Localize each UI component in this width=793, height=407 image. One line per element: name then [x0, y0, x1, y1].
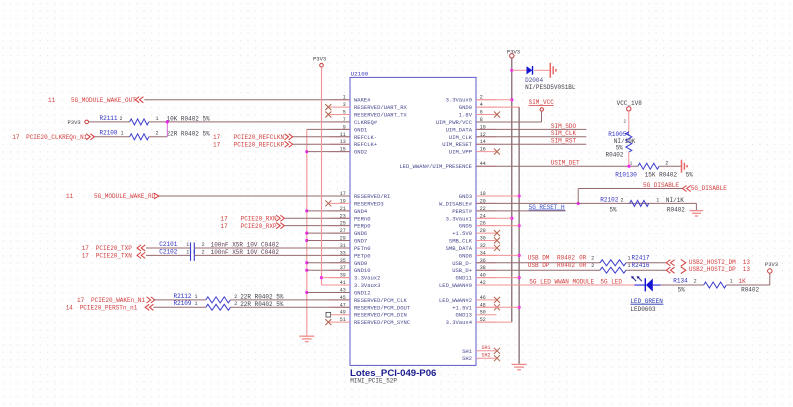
part title Lotes_PCI-049-P06	[350, 368, 436, 379]
wire VCC_1V8 to R10054	[624, 111, 629, 132]
pin 40 GND11	[455, 273, 496, 282]
pin 39 3.3Vaux2	[330, 273, 381, 282]
net SIM_RST label	[551, 138, 577, 145]
pin 29 GND7	[330, 236, 368, 245]
pin 7 CLKREQ#	[330, 117, 378, 126]
wire 5G_MODULE_WAKE_OUT to pin 1	[144, 99, 350, 101]
offpage connector PCIE20_TXN	[137, 252, 145, 258]
svg-text:PETn0: PETn0	[354, 245, 371, 252]
pin 19 RESERVED3	[325, 198, 383, 207]
pin 1 WAKE#	[330, 95, 372, 104]
wire PCIE20_WAKEn to R2112	[153, 299, 205, 301]
svg-text:C2101: C2101	[159, 241, 177, 248]
pin 49 RESERVED/PCM_DIN	[326, 310, 407, 319]
svg-text:SMB_DATA: SMB_DATA	[446, 245, 473, 252]
net SIM_CLK label	[551, 130, 577, 137]
svg-text:PERn0: PERn0	[354, 215, 371, 222]
svg-text:LED_WWAN#0: LED_WWAN#0	[439, 282, 472, 289]
wire R134 to P3V3	[726, 273, 770, 285]
pin 15 GND2	[330, 147, 368, 156]
svg-text:R0402: R0402	[667, 206, 685, 213]
svg-text:2: 2	[202, 242, 205, 248]
junction P3V3 bus at pin 2	[510, 98, 513, 101]
svg-text:6: 6	[480, 110, 483, 116]
pin 24 3.3Vaux1	[446, 213, 497, 222]
wire pin 29 GND7 to bus	[307, 240, 350, 242]
junction left gnd bus	[305, 239, 308, 242]
svg-text:22R R0402 5%: 22R R0402 5%	[240, 301, 284, 308]
svg-text:2: 2	[694, 279, 697, 285]
svg-text:5G_DISABLE: 5G_DISABLE	[691, 185, 727, 192]
resistor R2109 22R	[174, 300, 284, 310]
wire branch up to 5G_DISABLE	[577, 189, 579, 204]
svg-text:GND0: GND0	[459, 104, 472, 111]
svg-text:1: 1	[186, 242, 189, 248]
net 5G_MODULE_WAKE_OUT label	[48, 97, 136, 104]
wire pin 26 GND5 to bus	[476, 225, 519, 227]
svg-text:REFCLK-: REFCLK-	[354, 134, 377, 141]
wire pin 10 UIM_DATA SIM_SDO	[476, 128, 586, 130]
svg-text:10K R0402 5%: 10K R0402 5%	[167, 115, 211, 122]
svg-text:1: 1	[121, 131, 124, 137]
wire C2102 to pin 33	[194, 254, 350, 256]
svg-text:3.3Vaux1: 3.3Vaux1	[446, 215, 473, 222]
svg-text:MINI_PCIE_52P: MINI_PCIE_52P	[350, 377, 397, 384]
svg-text:LED_WWAN#/UIM_PRESENCE: LED_WWAN#/UIM_PRESENCE	[399, 163, 472, 170]
pin 51 RESERVED/PCM_SYNC	[325, 317, 411, 326]
svg-text:CLKREQ#: CLKREQ#	[354, 119, 378, 126]
svg-text:SIM_RST: SIM_RST	[551, 138, 577, 145]
pin 47 RESERVED/PCM_DOUT	[330, 302, 411, 311]
junction left gnd bus	[305, 261, 308, 264]
ground symbol at R10130	[682, 160, 688, 173]
svg-text:17: 17	[221, 223, 229, 230]
svg-text:PCIE20_REFCLKP: PCIE20_REFCLKP	[234, 141, 285, 148]
net PCIE20_REFCLKP label	[213, 141, 285, 148]
svg-text:USB DP: USB DP	[528, 262, 550, 269]
wire to diode D2004	[512, 69, 527, 71]
offpage connector PCIE20_CLKREQn_N1	[86, 134, 94, 140]
svg-text:R2102: R2102	[600, 197, 618, 204]
svg-text:R2416: R2416	[632, 262, 650, 269]
pin 2 3.3Vaux0	[446, 95, 497, 104]
svg-text:1: 1	[156, 116, 159, 122]
svg-text:R0402: R0402	[741, 286, 759, 293]
svg-text:LED_WWAN#2: LED_WWAN#2	[439, 297, 472, 304]
net 5G_RESET_H label	[529, 204, 565, 211]
wire R2416 to offpage	[626, 269, 666, 271]
junction right gnd bus	[518, 306, 521, 309]
svg-text:GND12: GND12	[354, 289, 371, 296]
LED cathode pin wire	[653, 284, 661, 286]
svg-text:17: 17	[221, 216, 229, 223]
offpage connector USB2_HOST2_DM	[666, 259, 750, 266]
junction left gnd bus	[305, 269, 308, 272]
pin 12 UIM_CLK	[449, 132, 497, 141]
svg-text:49: 49	[340, 310, 346, 316]
pin 16 UIM_VPP	[449, 147, 500, 156]
pin 42 LED_WWAN#0	[439, 280, 497, 289]
wire R2109 to pin 47	[230, 306, 350, 308]
capacitor C2101 100nF	[159, 241, 279, 253]
ground symbol right bus	[512, 364, 527, 369]
svg-text:RESERVED/UART_RX: RESERVED/UART_RX	[354, 104, 408, 111]
svg-text:UIM_CLK: UIM_CLK	[449, 134, 473, 141]
wire PCIE20_CLKREQn to R2108	[95, 136, 130, 138]
svg-text:2: 2	[591, 256, 594, 262]
pin 23 PERn0	[330, 213, 371, 222]
svg-text:1: 1	[730, 279, 733, 285]
svg-text:PCIE20_RXP: PCIE20_RXP	[241, 223, 277, 230]
wire R2111 pin1 to pin 7 CLKREQ#	[149, 121, 350, 123]
ground symbol at R2102	[690, 211, 704, 216]
svg-text:R0402: R0402	[557, 255, 575, 262]
svg-text:2: 2	[665, 160, 668, 166]
pin 6 1.8V	[459, 110, 500, 119]
svg-text:5G_MODULE_WAKE_OUT: 5G_MODULE_WAKE_OUT	[71, 97, 136, 104]
svg-text:RESERVED/PCM_CLK: RESERVED/PCM_CLK	[354, 297, 408, 304]
svg-text:11: 11	[66, 193, 74, 200]
svg-text:3.3Vaux3: 3.3Vaux3	[354, 282, 380, 289]
offpage connector 5G_MODULE_WAKE_OUT	[135, 97, 143, 103]
pin 38 USB_D+	[452, 265, 496, 274]
pin 30 SMB_CLK	[449, 236, 500, 245]
svg-text:PCIE20_PERSTn_n1: PCIE20_PERSTn_n1	[80, 305, 138, 312]
svg-text:PERST#: PERST#	[452, 208, 473, 215]
svg-text:R2108: R2108	[100, 130, 118, 137]
svg-text:3.3Vaux4: 3.3Vaux4	[446, 319, 473, 326]
wire pin 24 3.3Vaux1 to bus	[476, 217, 512, 219]
wire 5G_DISABLE	[578, 188, 682, 190]
svg-text:GND3: GND3	[459, 193, 472, 200]
svg-text:P3V3: P3V3	[765, 261, 778, 268]
svg-text:17: 17	[213, 134, 221, 141]
ground symbol left bus	[299, 336, 314, 341]
offpage connector PCIE20_RXN	[276, 215, 284, 221]
wire PCIE20_REFCLKP to pin 13	[293, 143, 350, 145]
diode D2004 TVS	[525, 66, 576, 91]
svg-text:PCIE20_RXN: PCIE20_RXN	[241, 216, 277, 223]
svg-text:30: 30	[480, 236, 486, 242]
wire pin 38 USB_D+ to R2416	[476, 269, 600, 271]
junction right gnd bus	[518, 276, 521, 279]
wire PCIE20_TXN to C2102	[146, 254, 191, 256]
svg-text:14: 14	[66, 305, 74, 312]
svg-text:5G DISABLE: 5G DISABLE	[643, 182, 679, 189]
svg-text:GND4: GND4	[354, 208, 368, 215]
junction USIM_DET at R10054	[627, 165, 630, 168]
svg-text:W_DISABLE#: W_DISABLE#	[439, 200, 473, 207]
svg-text:RESERVED3: RESERVED3	[354, 200, 384, 207]
wire R2108 to junction	[149, 136, 168, 138]
resistor R2111 10K	[100, 115, 211, 125]
right gnd bus	[518, 107, 520, 364]
wire pin 43 GND12 to bus	[307, 291, 350, 293]
svg-text:RESERVED/PCM_DIN: RESERVED/PCM_DIN	[354, 312, 407, 319]
svg-text:28: 28	[480, 228, 486, 234]
pin 26 GND5	[459, 221, 497, 230]
svg-text:SH1: SH1	[462, 348, 473, 355]
offpage connector USB2_HOST2_DP	[666, 266, 750, 273]
power flag P3V3 at R2111	[68, 119, 130, 126]
offpage connector PCIE20_WAKEn_N1	[147, 297, 155, 303]
offpage connector 5G_MODULE_WAKE_RD	[154, 193, 159, 199]
svg-text:1: 1	[656, 198, 659, 204]
wire pin 41 3.3Vaux3 stub	[322, 284, 351, 286]
svg-text:13: 13	[743, 259, 751, 266]
wire R2102 to ground	[695, 203, 697, 210]
net 5G_DISABLE label	[643, 182, 679, 189]
wire LED to R134	[661, 284, 704, 286]
pin 32 SMB_DATA	[446, 243, 500, 252]
power flag P3V3 at R134	[765, 261, 778, 273]
svg-text:1: 1	[186, 249, 189, 255]
junction left gnd bus	[305, 209, 308, 212]
svg-text:13: 13	[743, 266, 751, 273]
svg-text:46: 46	[480, 295, 486, 301]
svg-text:+1.5V1: +1.5V1	[452, 304, 473, 311]
svg-text:+1.5V0: +1.5V0	[452, 230, 472, 237]
pin 52 3.3Vaux4	[446, 317, 497, 326]
svg-text:17: 17	[82, 245, 90, 252]
junction left gnd bus	[305, 232, 308, 235]
pin 28 +1.5V0	[452, 228, 500, 237]
net flag SIM_VCC	[529, 99, 555, 111]
svg-text:REFCLK+: REFCLK+	[354, 141, 377, 148]
svg-text:LED0603: LED0603	[630, 306, 656, 313]
wire pin 18 GND3 to bus	[476, 195, 519, 197]
wire pin 27 GND6 to bus	[307, 232, 350, 234]
svg-text:GND11: GND11	[455, 275, 472, 282]
IC U2100 body	[350, 77, 476, 365]
pin 50 GND13	[455, 310, 496, 319]
svg-text:P3V3: P3V3	[68, 119, 81, 126]
svg-text:2: 2	[621, 198, 624, 204]
svg-text:UIM_VPP: UIM_VPP	[449, 149, 472, 156]
svg-text:R2111: R2111	[100, 115, 118, 122]
pin 34 GND8	[459, 250, 497, 259]
pin 27 GND6	[330, 228, 368, 237]
pin SH1	[462, 345, 500, 355]
wire pin 2 3.3Vaux0 to bus	[476, 99, 512, 101]
wire pin 8 UIM_PWR/VCC to SIM_VCC	[476, 111, 542, 122]
svg-text:3.3Vaux2: 3.3Vaux2	[354, 275, 380, 282]
wire pin 21 GND4 to bus	[307, 210, 350, 212]
pin SH2	[462, 353, 500, 363]
resistor R2112 22R	[174, 293, 284, 303]
junction P3V3 at pin 39	[320, 276, 323, 279]
svg-text:NI/1K: NI/1K	[666, 197, 684, 204]
pin 48 +1.5V1	[452, 302, 500, 311]
svg-text:SH2: SH2	[482, 353, 491, 359]
wire PCIE20_TXP to C2101	[146, 247, 191, 249]
svg-text:SH2: SH2	[462, 355, 472, 362]
wire pin 34 GND8 to bus	[476, 254, 519, 256]
svg-text:17: 17	[82, 253, 90, 260]
junction P3V3 bus at pin 24	[510, 217, 513, 220]
svg-text:RESERVED/UART_TX: RESERVED/UART_TX	[354, 112, 408, 119]
wire PCIE20_REFCLKN to pin 11	[293, 136, 350, 138]
svg-text:2: 2	[234, 294, 237, 300]
svg-text:RESERVED/PCM_DOUT: RESERVED/PCM_DOUT	[354, 304, 411, 311]
svg-text:C2102: C2102	[159, 248, 177, 255]
svg-text:0R: 0R	[579, 255, 587, 262]
svg-text:3: 3	[343, 102, 346, 108]
wire PCIE20_RXP to pin 25	[285, 225, 350, 227]
pin 36 USB_D-	[452, 258, 496, 267]
junction right gnd bus	[518, 194, 521, 197]
svg-text:USB_D-: USB_D-	[452, 260, 472, 267]
svg-text:SMB_CLK: SMB_CLK	[449, 238, 473, 245]
wire PCIE20_RXN to pin 23	[285, 217, 350, 219]
svg-text:GND10: GND10	[354, 267, 371, 274]
power flag VCC_1V8	[617, 100, 643, 111]
pin 9 GND1	[330, 124, 368, 133]
wire pin 4 GND0 to right gnd bus	[476, 106, 519, 108]
pin 20 W_DISABLE#	[439, 198, 497, 207]
resistor R2416 0R	[600, 262, 650, 273]
wire P3V3 bus down to pin 52	[511, 58, 513, 322]
pin 44 LED_WWAN#/UIM_PRESENCE	[399, 161, 496, 170]
svg-text:2: 2	[234, 301, 237, 307]
svg-text:50: 50	[480, 310, 486, 316]
junction W_DISABLE# branch	[577, 202, 580, 205]
pin 14 UIM_RESET	[442, 139, 496, 148]
svg-text:USB DM: USB DM	[528, 255, 550, 262]
junction at R2111/R2108	[166, 120, 169, 123]
wire pin 50 GND13 to bus	[476, 306, 519, 308]
svg-text:1K: 1K	[739, 278, 747, 285]
svg-text:5G LED WWAN MODULE: 5G LED WWAN MODULE	[529, 278, 594, 285]
svg-text:3.3Vaux0: 3.3Vaux0	[446, 97, 472, 104]
wire R10054 to USIM_DET line	[629, 152, 633, 166]
pin 21 GND4	[330, 206, 368, 215]
resistor R2417 0R	[600, 255, 650, 266]
svg-text:5%: 5%	[678, 286, 686, 293]
svg-text:UIM_DATA: UIM_DATA	[446, 126, 473, 133]
pin 22 PERST#	[452, 206, 496, 215]
pin 18 GND3	[459, 191, 497, 200]
wire R2417 to offpage	[626, 262, 666, 264]
wire pin 39 3.3Vaux2 stub	[322, 277, 351, 279]
svg-text:GND8: GND8	[459, 252, 472, 259]
junction left gnd bus	[305, 150, 308, 153]
ground symbol at D2004	[550, 63, 556, 78]
svg-text:RESERVED/PCM_SYNC: RESERVED/PCM_SYNC	[354, 319, 411, 326]
svg-text:USB2_HOST2_DP: USB2_HOST2_DP	[689, 266, 736, 273]
svg-text:5%: 5%	[609, 206, 617, 213]
wire pin 14 UIM_RESET SIM_RST	[476, 143, 586, 145]
resistor R10054 NI/10K vertical	[606, 131, 636, 158]
wire C2101 to pin 31	[194, 247, 350, 249]
offpage connector PCIE20_RXP	[276, 223, 284, 229]
net PCIE20_CLKREQn_N1 label	[12, 134, 87, 141]
capacitor C2102 100nF	[159, 248, 279, 260]
svg-text:U2100: U2100	[351, 70, 369, 77]
net USIM_DET label	[551, 160, 580, 167]
svg-text:1: 1	[195, 301, 198, 307]
svg-text:5G_MODULE_WAKE_RD: 5G_MODULE_WAKE_RD	[94, 193, 156, 200]
svg-text:1: 1	[195, 294, 198, 300]
svg-text:2: 2	[591, 263, 594, 269]
wire pin 52 3.3Vaux4 to bus	[476, 321, 512, 323]
pin 5 RESERVED/UART_TX	[325, 110, 407, 119]
offpage connector PCIE20_PERSTn_n1	[145, 304, 153, 310]
svg-text:R2109: R2109	[174, 300, 192, 307]
svg-text:2: 2	[120, 116, 123, 122]
net PCIE20_WAKEn_N1 label	[77, 297, 145, 304]
net USB_DP label	[528, 262, 595, 269]
svg-text:UIM_RESET: UIM_RESET	[442, 141, 472, 148]
svg-text:R0402: R0402	[557, 262, 575, 269]
svg-text:PETp0: PETp0	[354, 252, 371, 259]
svg-text:SIM_SDO: SIM_SDO	[551, 123, 577, 130]
svg-text:GND5: GND5	[459, 223, 472, 230]
svg-text:16: 16	[480, 147, 486, 153]
wire pin 40 GND11 to bus	[476, 277, 519, 279]
svg-text:22R R0402 5%: 22R R0402 5%	[167, 130, 211, 137]
svg-text:VCC_1V8: VCC_1V8	[617, 100, 643, 107]
svg-text:R134: R134	[673, 278, 688, 285]
svg-text:17: 17	[77, 297, 85, 304]
svg-text:USB_D+: USB_D+	[452, 267, 472, 274]
svg-text:5G LED: 5G LED	[600, 278, 622, 285]
resistor R134 1K	[673, 278, 759, 294]
offpage connector PCIE20_REFCLKN	[285, 134, 293, 140]
svg-text:1.8V: 1.8V	[459, 112, 473, 119]
net 5G_MODULE_WAKE_RD label	[66, 193, 156, 200]
svg-text:1: 1	[628, 263, 631, 269]
pin 45 RESERVED/PCM_CLK	[330, 295, 408, 304]
offpage connector 5G_DISABLE	[683, 185, 728, 192]
svg-text:0R: 0R	[579, 262, 587, 269]
svg-text:NI/PESD5V0S1BL: NI/PESD5V0S1BL	[525, 84, 576, 91]
left gnd bus	[306, 129, 308, 335]
pin 13 REFCLK+	[330, 139, 378, 148]
net PCIE20_REFCLKN label	[213, 134, 285, 141]
net PCIE20_RXP label	[221, 223, 278, 230]
wire pin 9 GND1 to left gnd bus	[307, 128, 350, 130]
LED D? LED_GREEN	[630, 277, 663, 313]
svg-text:11: 11	[48, 97, 56, 104]
wire R10130 to ground	[659, 165, 681, 167]
svg-text:PCIE20_CLKREQn_N1: PCIE20_CLKREQn_N1	[26, 134, 88, 141]
svg-text:RESERVED/RI: RESERVED/RI	[354, 193, 390, 200]
svg-text:R2112: R2112	[174, 293, 192, 300]
svg-text:USIM_DET: USIM_DET	[551, 160, 580, 167]
offpage connector PCIE20_REFCLKP	[285, 141, 293, 147]
pin 3 RESERVED/UART_RX	[325, 102, 407, 111]
svg-text:R2417: R2417	[632, 255, 650, 262]
svg-text:5: 5	[343, 110, 346, 116]
svg-text:R10130: R10130	[615, 172, 637, 179]
pin 46 LED_WWAN#2	[439, 295, 500, 304]
svg-text:SIM_CLK: SIM_CLK	[551, 130, 577, 137]
net PCIE20_RXN label	[221, 216, 278, 223]
junction left gnd bus	[305, 291, 308, 294]
wire P3V3 drop to 3.3Vaux pins	[321, 67, 323, 285]
wire junction vertical to CLKREQ line	[166, 122, 168, 137]
pin 17 RESERVED/RI	[330, 191, 391, 200]
svg-text:17: 17	[12, 134, 20, 141]
wire PCIE20_PERSTn to R2109	[153, 306, 205, 308]
svg-text:GND9: GND9	[354, 260, 367, 267]
net PCIE20_PERSTn_n1 label	[66, 305, 138, 312]
svg-text:PERp0: PERp0	[354, 223, 371, 230]
refdes U2100	[351, 70, 369, 77]
wire pin 20 W_DISABLE#	[476, 202, 696, 204]
resistor R10130 15K	[615, 160, 693, 178]
